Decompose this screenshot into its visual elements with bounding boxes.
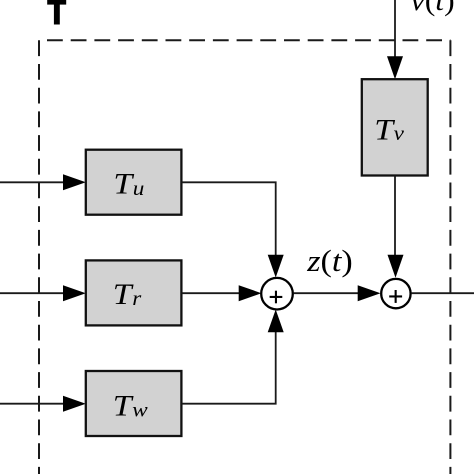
arrowhead into Tr xyxy=(63,285,86,301)
wire: input u into Tu xyxy=(0,181,64,183)
block Tv xyxy=(362,79,428,175)
arrowhead into sum 2 left xyxy=(358,285,381,301)
block Tu xyxy=(86,150,182,215)
arrowhead into sum 1 left xyxy=(239,285,262,301)
wire: input w into Tw xyxy=(0,403,64,405)
wire: v(t) down into Tv xyxy=(394,0,396,58)
arrowhead down into sum 2 top xyxy=(388,255,404,278)
arrowhead down into sum 1 top xyxy=(268,255,284,278)
summing junction 1 xyxy=(261,278,293,310)
wire: Tr output right to sum 1 xyxy=(181,292,240,294)
wire: Tw output right then up to sum 1 xyxy=(181,331,275,404)
label T (bold, top-left, cropped at top) xyxy=(47,0,66,25)
label z(t) xyxy=(306,244,353,278)
arrowhead into Tu xyxy=(63,174,86,190)
block Tr xyxy=(86,260,182,325)
arrowhead into Tw xyxy=(63,396,86,412)
svg-text:z(t): z(t) xyxy=(306,244,353,278)
arrowhead into Tv xyxy=(387,56,403,79)
svg-text:v(t): v(t) xyxy=(411,0,455,17)
wire: sum 1 to sum 2 xyxy=(294,292,359,294)
block Tw xyxy=(86,371,182,436)
label v(t) (top, cropped) xyxy=(411,0,455,17)
wire: Tu output right then down to sum 1 xyxy=(181,182,275,256)
wire: sum 2 output z(t) to right edge xyxy=(411,292,474,294)
wire: Tv output down to sum 2 xyxy=(394,176,396,257)
summing junction 2 xyxy=(381,279,410,308)
wire: input r into Tr xyxy=(0,292,64,294)
arrowhead up into sum 1 bottom xyxy=(268,310,284,333)
dashed system boundary box T xyxy=(39,40,450,474)
